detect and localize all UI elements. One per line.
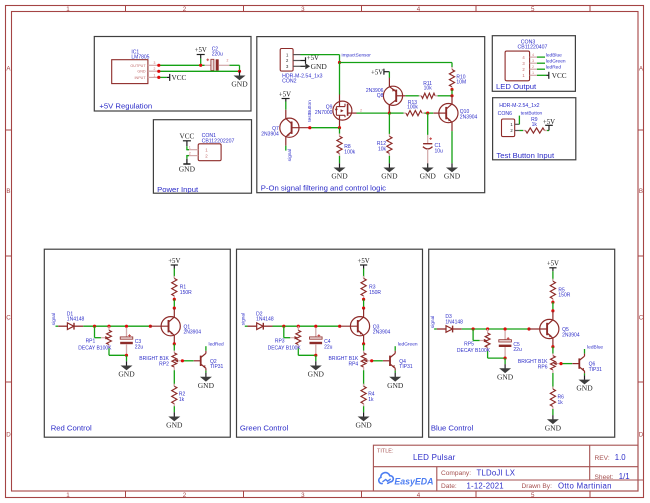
wire Q2 emitter to GND <box>205 368 207 372</box>
transistor Q10 2N3904 <box>433 95 477 131</box>
junction dot R11 R10 Q10 node <box>450 94 453 97</box>
wire R3 to Q collector <box>363 299 365 308</box>
junction dot wiper node <box>282 325 285 328</box>
svg-text:GND: GND <box>576 384 593 393</box>
frame column ticks top <box>126 6 591 12</box>
frame row ticks left <box>6 130 12 382</box>
svg-text:Q8: Q8 <box>377 93 384 99</box>
frame row letters left <box>6 66 11 439</box>
svg-text:GND: GND <box>497 372 514 381</box>
wire Q10 emitter to GND <box>451 131 453 163</box>
junction dot wiper BRIGHT B1K <box>181 359 184 362</box>
svg-text:Red Control: Red Control <box>51 424 92 433</box>
svg-text:OUTPUT: OUTPUT <box>130 64 146 68</box>
wire RP3 bottom to C4 bottom <box>298 348 316 355</box>
resistor R2 1k <box>172 384 186 407</box>
svg-text:10M: 10M <box>456 80 466 86</box>
svg-text:GND: GND <box>179 164 196 173</box>
svg-text:2: 2 <box>227 59 229 63</box>
wire Q8 collector node to R13 <box>389 112 403 114</box>
junction dot RP1 top node <box>107 325 110 328</box>
wire R9 to +5V <box>547 130 549 132</box>
svg-text:VCC: VCC <box>172 74 187 82</box>
svg-text:Drawn By:: Drawn By: <box>522 483 553 490</box>
svg-text:1N4148: 1N4148 <box>445 319 463 325</box>
svg-text:RP4: RP4 <box>348 362 358 368</box>
junction dot R10 bottom <box>450 88 453 91</box>
ground GND under Q2 <box>198 373 215 390</box>
wire diode D2 to Q base <box>273 325 340 327</box>
junction dot Q8 collector node <box>388 112 391 115</box>
svg-text:1: 1 <box>66 6 70 13</box>
svg-text:C: C <box>6 315 11 322</box>
transistor Q6 TIP31 <box>572 356 602 373</box>
ground GND under R2 <box>166 412 183 429</box>
wire wiper of RP5 <box>473 329 479 341</box>
wire C4 bottom to GND <box>315 355 317 361</box>
svg-text:ledBlue: ledBlue <box>546 52 562 58</box>
power +5V regulator output <box>195 47 207 65</box>
junction dot Q7 base testButton <box>308 126 311 129</box>
junction dot +5V on output wire <box>199 64 202 67</box>
title block Date and Drawn By <box>441 481 612 490</box>
svg-text:1k: 1k <box>179 397 185 403</box>
svg-text:3: 3 <box>532 59 534 63</box>
svg-text:VCC: VCC <box>180 133 195 141</box>
svg-text:INPUT: INPUT <box>135 76 147 80</box>
wire RP5 bottom to C5 bottom <box>488 351 506 358</box>
capacitor C5 22u <box>499 331 522 358</box>
block box Blue Control <box>429 249 615 437</box>
svg-text:2: 2 <box>189 152 191 156</box>
power +5V above Q7 <box>279 91 291 109</box>
junction dot IC1 pin3 <box>157 64 160 67</box>
junction dot Q base pin <box>149 325 152 328</box>
svg-text:DECAY B100K: DECAY B100K <box>268 345 302 351</box>
wire BRIGHT B1K to R4 <box>363 370 365 386</box>
wire Q emitter to BRIGHT B1K <box>552 347 554 354</box>
wire Q8 base to R11 <box>405 95 419 97</box>
svg-text:+5V: +5V <box>195 47 207 54</box>
wire CON3 pin4 ledBlue <box>537 56 545 58</box>
wire BRIGHT B1K wiper to Q2 base <box>183 360 194 362</box>
svg-text:1-12-2021: 1-12-2021 <box>467 481 504 490</box>
svg-text:Date:: Date: <box>441 483 457 490</box>
svg-text:LM7805: LM7805 <box>131 55 149 61</box>
svg-text:10k: 10k <box>378 147 387 153</box>
transistor Q7 2N3904 <box>261 110 310 146</box>
connector CON6 HDR-M-2.54_1x2 <box>498 103 540 137</box>
power +5V at R9 <box>543 119 555 131</box>
resistor R3 150R <box>361 276 381 299</box>
diode D1 1N4148 <box>58 311 84 329</box>
wire BRIGHT B1K wiper to Q4 base <box>372 360 383 362</box>
junction dot Q collector <box>551 309 554 312</box>
svg-text:GND: GND <box>137 70 146 74</box>
svg-text:150R: 150R <box>180 290 192 296</box>
svg-text:RP2: RP2 <box>159 362 169 368</box>
svg-text:CB11220407: CB11220407 <box>518 45 548 51</box>
svg-text:GND: GND <box>311 62 328 71</box>
svg-text:ledRed: ledRed <box>209 342 225 348</box>
potentiometer BRIGHT B1K BRIGHT B1K <box>329 351 372 371</box>
ground GND under C3 <box>118 361 135 378</box>
svg-text:5: 5 <box>531 6 535 13</box>
svg-text:1: 1 <box>154 73 156 77</box>
capacitor C3 22u <box>120 328 143 355</box>
svg-text:1N4148: 1N4148 <box>67 317 85 323</box>
power +5V above R3 <box>358 258 370 278</box>
wire node to R12 top <box>388 113 390 134</box>
svg-text:10u: 10u <box>435 148 444 154</box>
resistor R10 10M <box>449 67 466 89</box>
junction dot R5 bottom <box>551 301 554 304</box>
svg-text:Test Button Input: Test Button Input <box>496 151 555 160</box>
block box Test Button Input <box>493 98 576 160</box>
frame column ticks bottom <box>126 491 591 498</box>
block box Power Input <box>153 120 251 194</box>
wire Q8 collector down <box>388 105 390 113</box>
svg-text:ledRed: ledRed <box>546 65 562 71</box>
junction dot GND net corner <box>238 70 241 73</box>
junction dot C1 Q10 base node <box>426 112 429 115</box>
svg-text:GND: GND <box>331 172 348 181</box>
svg-text:LED Output: LED Output <box>496 82 537 91</box>
junction dot C5 bottom <box>504 357 507 360</box>
svg-text:+5V: +5V <box>547 261 559 268</box>
svg-text:GND: GND <box>308 370 325 379</box>
junction dot Q emitter <box>362 342 365 345</box>
svg-text:1: 1 <box>66 492 70 499</box>
ground GND under R12 <box>381 163 398 180</box>
transistor Q4 TIP31 <box>383 353 413 370</box>
title block REV <box>595 453 627 462</box>
svg-text:Blue Control: Blue Control <box>431 424 474 433</box>
transistor Q9 2N7000 mosfet <box>315 95 362 128</box>
svg-text:GND: GND <box>444 172 461 181</box>
svg-text:2: 2 <box>154 67 156 71</box>
wire CON3 pin3 ledGreen <box>537 62 545 64</box>
svg-text:ledBlue: ledBlue <box>587 344 603 350</box>
junction dot Q emitter <box>173 342 176 345</box>
svg-text:HDR-M-2.54_1x2: HDR-M-2.54_1x2 <box>499 103 539 109</box>
junction dot IC1 pin1 <box>157 76 160 79</box>
svg-text:RP3: RP3 <box>275 339 285 345</box>
EasyEDA logo <box>379 473 434 487</box>
transistor Q2 TIP31 <box>194 353 224 370</box>
wire BRIGHT B1K to R6 <box>552 373 554 389</box>
wire C5 bottom to GND <box>504 358 506 364</box>
svg-text:5: 5 <box>531 492 535 499</box>
svg-text:B: B <box>639 188 643 195</box>
svg-text:testButton: testButton <box>521 111 543 117</box>
junction dot wiper BRIGHT B1K <box>559 362 562 365</box>
junction dot Q base pin <box>338 325 341 328</box>
svg-text:3: 3 <box>301 492 305 499</box>
wire IC1 GND pin to corner <box>159 70 240 72</box>
power +5V above R5 <box>547 261 559 281</box>
svg-text:22u: 22u <box>135 344 144 350</box>
junction dot Q base pin <box>527 327 530 330</box>
potentiometer RP3 DECAY B100K <box>268 326 302 351</box>
svg-text:4: 4 <box>417 492 421 499</box>
svg-text:Power Input: Power Input <box>157 185 199 194</box>
svg-text:100k: 100k <box>344 149 355 155</box>
junction dot wiper node <box>93 325 96 328</box>
svg-text:2N3904: 2N3904 <box>562 332 580 338</box>
diode D3 1N4148 <box>437 314 463 332</box>
wire Q6 collector to ledBlue <box>584 349 586 356</box>
resistor R6 1k <box>550 387 564 410</box>
svg-text:4: 4 <box>417 6 421 13</box>
svg-text:+5V: +5V <box>358 258 370 265</box>
frame column numbers bottom <box>66 492 535 499</box>
resistor R11 10k <box>419 81 438 99</box>
svg-text:Otto Martinian: Otto Martinian <box>558 481 612 490</box>
junction dot wiper BRIGHT B1K <box>370 359 373 362</box>
svg-text:D: D <box>639 432 644 439</box>
wire BRIGHT B1K to R2 <box>173 370 175 386</box>
svg-text:3: 3 <box>154 61 156 65</box>
svg-text:TIP31: TIP31 <box>399 364 413 370</box>
svg-text:CON6: CON6 <box>498 111 513 117</box>
svg-text:1k: 1k <box>558 400 564 406</box>
resistor R12 10k <box>377 134 392 156</box>
svg-text:TIP31: TIP31 <box>210 364 224 370</box>
wire wiper of RP3 <box>284 326 290 338</box>
wire IC1 OUTPUT to C2 <box>159 64 205 66</box>
block box +5V Regulation <box>94 37 251 112</box>
junction dot RP3 top node <box>297 325 300 328</box>
wire Q emitter to BRIGHT B1K <box>363 344 365 351</box>
potentiometer RP1 DECAY B100K <box>78 326 112 351</box>
svg-text:Green Control: Green Control <box>240 424 289 433</box>
svg-text:RP1: RP1 <box>86 339 96 345</box>
potentiometer BRIGHT B1K BRIGHT B1K <box>518 354 561 374</box>
svg-text:1k: 1k <box>368 397 374 403</box>
potentiometer RP5 DECAY B100K <box>457 329 491 354</box>
power +5V at CON2 pin2 <box>301 55 320 64</box>
svg-text:4: 4 <box>532 53 534 57</box>
wire R6 to GND <box>552 409 554 415</box>
svg-text:LED Pulsar: LED Pulsar <box>413 453 456 462</box>
wire CON6 pin1 to testButton <box>518 116 520 125</box>
svg-text:100k: 100k <box>407 105 418 111</box>
svg-text:TLDoJI LX: TLDoJI LX <box>477 468 516 477</box>
wire R2 to GND <box>173 406 175 412</box>
svg-text:Company:: Company: <box>441 470 471 477</box>
frame row letters right <box>639 66 644 439</box>
svg-text:testButton: testButton <box>307 100 313 122</box>
ground GND under Q4 <box>387 373 404 390</box>
wire impactSensor node down to Q9 drain <box>339 63 341 95</box>
svg-text:GND: GND <box>381 172 398 181</box>
svg-text:GND: GND <box>118 370 135 379</box>
svg-text:150R: 150R <box>369 290 381 296</box>
power VCC at IC1 input <box>167 74 187 82</box>
svg-text:220u: 220u <box>212 51 223 57</box>
svg-text:1k: 1k <box>532 122 538 128</box>
svg-text:DECAY B100K: DECAY B100K <box>78 345 112 351</box>
svg-text:1/1: 1/1 <box>619 472 630 481</box>
svg-text:1: 1 <box>532 71 534 75</box>
ground GND under C1 <box>420 163 437 180</box>
wire Q9 gate to Q8 collector node <box>357 112 390 114</box>
junction dot RP5 top node <box>486 327 489 330</box>
ground GND of CON1 <box>179 159 196 174</box>
transistor Q8 2N3906 <box>366 78 406 114</box>
svg-text:VCC: VCC <box>552 72 567 80</box>
ground GND under R6 <box>545 415 562 432</box>
svg-text:REV:: REV: <box>595 455 610 462</box>
ground GND under Q10 <box>444 163 461 180</box>
connector CON3 CB11220407 <box>505 39 547 81</box>
svg-text:P-On signal filtering and cont: P-On signal filtering and control logic <box>261 183 386 192</box>
title block Company <box>441 468 516 477</box>
svg-text:3: 3 <box>301 6 305 13</box>
block box LED Output <box>492 36 575 92</box>
title block Sheet <box>595 472 630 481</box>
svg-text:+5V: +5V <box>168 258 180 265</box>
svg-text:2: 2 <box>532 65 534 69</box>
svg-text:signal: signal <box>51 313 57 326</box>
transistor Q1 2N3904 <box>150 308 201 344</box>
wire Q emitter to BRIGHT B1K <box>173 344 175 351</box>
junction dot R3 bottom <box>362 298 365 301</box>
svg-text:22u: 22u <box>324 344 333 350</box>
ground GND at CON2 pin3 <box>301 62 328 71</box>
wire diode D1 to Q base <box>83 325 150 327</box>
svg-text:1.0: 1.0 <box>615 453 627 462</box>
svg-text:10k: 10k <box>424 86 433 92</box>
block box P-On signal filtering and control logic <box>257 37 485 193</box>
capacitor C2 220u <box>205 46 230 70</box>
wire signal to diode D1 <box>56 325 59 327</box>
power +5V above R1 <box>168 258 180 278</box>
svg-text:+5V Regulation: +5V Regulation <box>99 102 152 111</box>
svg-text:DECAY B100K: DECAY B100K <box>457 348 491 354</box>
resistor R13 100k <box>404 100 425 116</box>
svg-text:1: 1 <box>189 146 191 150</box>
svg-text:GND: GND <box>166 421 183 430</box>
wire diode D3 to Q base <box>462 328 529 330</box>
svg-text:22u: 22u <box>513 347 522 353</box>
wire R5 to Q collector <box>552 302 554 311</box>
ground GND under R8 <box>331 163 348 180</box>
svg-text:signal: signal <box>430 316 436 329</box>
frame row ticks right <box>638 130 644 382</box>
wire Q7 base to Q9 source node <box>310 127 340 129</box>
svg-text:GND: GND <box>355 421 372 430</box>
junction dot C3 bottom <box>125 354 128 357</box>
wire wiper of RP1 <box>95 326 101 338</box>
svg-text:2N3904: 2N3904 <box>373 330 391 336</box>
junction dot Q collector <box>362 307 365 310</box>
svg-text:ledGreen: ledGreen <box>546 59 566 65</box>
ground GND under C4 <box>308 361 325 378</box>
svg-text:2N3904: 2N3904 <box>261 131 279 137</box>
junction dot Q emitter <box>551 345 554 348</box>
junction dot C3 top node <box>125 325 128 328</box>
svg-text:impactSensor: impactSensor <box>342 52 372 58</box>
svg-text:CON2: CON2 <box>282 79 297 85</box>
wire C2 right to GND corner <box>230 65 240 71</box>
svg-text:GND: GND <box>420 172 437 181</box>
svg-text:RP6: RP6 <box>538 364 548 370</box>
svg-text:C: C <box>639 315 644 322</box>
power VCC at CON1 pin1 <box>180 133 195 150</box>
resistor R5 150R <box>550 279 570 302</box>
frame column numbers top <box>66 6 535 13</box>
transistor Q3 2N3904 <box>340 308 391 344</box>
wire signal to diode D3 <box>434 328 437 330</box>
svg-text:1N4148: 1N4148 <box>256 317 274 323</box>
svg-text:150R: 150R <box>558 293 570 299</box>
resistor R9 1k <box>519 117 547 133</box>
svg-text:2: 2 <box>360 109 362 113</box>
wire Q4 emitter to GND <box>394 368 396 372</box>
wire impactSensor node to R10 top <box>340 63 453 68</box>
svg-text:CB112202207: CB112202207 <box>202 139 235 145</box>
ground GND of C2 <box>231 71 248 88</box>
wire R4 to GND <box>363 406 365 412</box>
wire R8 to GND <box>339 156 341 163</box>
ground GND under Q6 <box>576 375 593 392</box>
junction dot Q9 source R8 node <box>338 126 341 129</box>
potentiometer BRIGHT B1K BRIGHT B1K <box>139 351 182 371</box>
wire CON3 pin2 ledRed <box>537 68 545 70</box>
junction dot impactSensor node <box>338 61 341 64</box>
wire CON3 pin1 to VCC <box>537 74 547 76</box>
svg-text:GND: GND <box>545 423 562 432</box>
junction dot R1 bottom <box>173 298 176 301</box>
block box Green Control <box>237 249 423 437</box>
ground GND under C5 <box>497 364 514 381</box>
svg-text:2N7000: 2N7000 <box>315 110 333 116</box>
wire R1 to Q collector <box>173 299 175 308</box>
diode D2 1N4148 <box>248 311 274 329</box>
transistor Q5 2N3904 <box>529 311 580 347</box>
junction dot C4 bottom <box>314 354 317 357</box>
connector CON1 CB112202207 <box>186 133 234 161</box>
wire Q6 emitter to GND <box>584 371 586 375</box>
svg-text:GND: GND <box>198 381 215 390</box>
power VCC at CON3 pin1 <box>547 72 567 80</box>
svg-text:GND: GND <box>231 80 248 89</box>
wire BRIGHT B1K wiper to Q6 base <box>561 363 572 365</box>
ground GND under R4 <box>355 412 372 429</box>
title block border <box>373 445 644 491</box>
resistor R8 100k <box>337 128 356 156</box>
svg-text:2N3904: 2N3904 <box>460 114 478 120</box>
junction dot wiper node <box>472 327 475 330</box>
junction dot Q collector <box>173 307 176 310</box>
wire CON1 pin2 to GND <box>186 156 188 159</box>
regulator U IC1 LM7805 <box>112 50 159 84</box>
svg-text:2: 2 <box>183 492 187 499</box>
capacitor C1 10u polarized <box>423 113 443 163</box>
capacitor C4 22u <box>310 328 333 355</box>
wire Q2 collector to ledRed <box>205 346 207 353</box>
power +5V above Q8 rotated <box>371 69 389 78</box>
svg-text:RP5: RP5 <box>464 341 474 347</box>
svg-text:B: B <box>6 188 10 195</box>
svg-text:+5V: +5V <box>279 91 291 98</box>
wire R13 right to C1 node <box>425 112 434 114</box>
svg-text:D: D <box>6 432 11 439</box>
junction dot IC1 pin2 <box>157 70 160 73</box>
svg-text:2: 2 <box>183 6 187 13</box>
